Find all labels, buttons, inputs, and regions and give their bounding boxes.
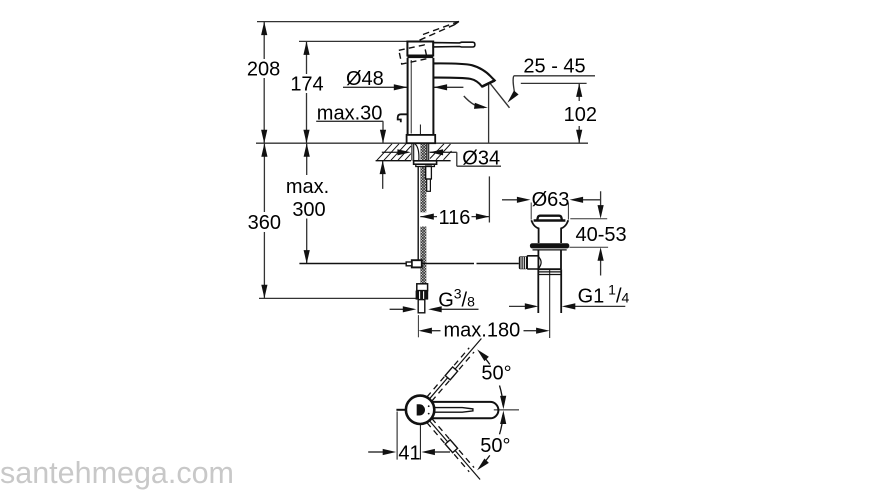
extension line 360 bottom [259, 297, 416, 299]
arrow 102 top [576, 83, 582, 97]
extension line 116 right [488, 176, 490, 222]
svg-text:40-53: 40-53 [576, 224, 627, 246]
arrow Ø48 right [394, 84, 408, 90]
arrow Ø63 right [570, 197, 584, 203]
arrow 40-53 top [598, 205, 604, 219]
svg-text:41: 41 [398, 442, 420, 464]
deck hatching right [430, 144, 452, 160]
svg-text:max.: max. [286, 176, 329, 198]
spout [433, 63, 494, 86]
upper 50° arc (broken at text) [486, 359, 504, 405]
dimension 102 line [578, 83, 580, 143]
arrow 41 right [421, 449, 435, 455]
svg-text:116: 116 [438, 207, 470, 229]
leader curve 25-45 [513, 76, 515, 93]
faucet body [408, 58, 434, 135]
head tilted (dashed) [399, 45, 427, 64]
extension lines 40-53 [569, 219, 608, 247]
dimension 174 line [306, 41, 308, 143]
arrow 102 bottom [576, 130, 582, 144]
arrow max.180 left [418, 328, 432, 334]
shank parts in deck hole [412, 143, 429, 160]
top view cartridge slot (pill) [417, 404, 425, 415]
upper 50° extension diagonal [430, 339, 482, 399]
svg-text:208: 208 [247, 59, 280, 81]
extension lines Ø63 [531, 203, 568, 220]
svg-text:G1 1/4: G1 1/4 [578, 281, 630, 307]
arrow 116 right [476, 214, 490, 220]
dimension Ø63 line [502, 199, 600, 201]
arrow Ø48 left [434, 84, 448, 90]
svg-text:Ø63: Ø63 [532, 189, 570, 211]
horizontal pop-up rod [299, 263, 518, 265]
arrow G1 1/4 right [562, 303, 576, 309]
water stream diagonal [490, 84, 509, 108]
dimension max.300 line [306, 143, 308, 263]
arrow max.180 right [536, 328, 550, 334]
deck level line [256, 142, 588, 144]
lower 50° arc (broken at text) [486, 415, 504, 461]
svg-text:25 - 45: 25 - 45 [523, 55, 585, 77]
tailpipe joint lines [538, 272, 561, 275]
svg-text:360: 360 [248, 212, 281, 234]
svg-text:santehmega.com: santehmega.com [0, 456, 234, 490]
dimension G3/8 line [390, 308, 479, 310]
arrow 40-53 bottom [598, 247, 604, 261]
arrow 174 top [303, 41, 309, 55]
svg-text:102: 102 [564, 104, 597, 126]
arrow max.300 bottom [304, 250, 310, 264]
drain side port inner arc [538, 257, 541, 269]
dimension G1 1/4 line [509, 305, 625, 307]
top view lever bar [431, 408, 473, 413]
dimension 208 line [263, 22, 265, 144]
arrow Ø34 right [430, 149, 444, 155]
braided hose upper [420, 167, 426, 213]
faucet centerline [419, 125, 421, 135]
drain ring underline [533, 249, 567, 251]
dimension 40-53 vertical [600, 191, 602, 275]
lower lever grip outline [445, 440, 457, 453]
dimension Ø48 leader lines [343, 86, 463, 88]
spout outlet face [482, 80, 495, 86]
arrow Ø34 left [397, 149, 411, 155]
arc arrowhead upper-bottom [500, 396, 506, 410]
faucet head dark band [407, 55, 433, 58]
arrow Ø63 left [517, 197, 531, 203]
drain plug cap [537, 216, 562, 220]
centerline right of spout [494, 409, 519, 411]
arrow max.30 up [380, 161, 386, 175]
dimension 360 line [263, 143, 265, 298]
pop-up vertical rod [417, 167, 419, 261]
hose end fitting [417, 284, 428, 291]
arrow aerator swivel [474, 103, 488, 111]
extension line head top [299, 40, 407, 42]
drain tailpipe [538, 269, 561, 313]
faucet head (cartridge housing) [407, 42, 433, 56]
svg-text:Ø34: Ø34 [462, 147, 500, 169]
G3/8 nut [416, 291, 429, 300]
arrow 116 left [420, 214, 434, 220]
top view left tick [396, 409, 406, 411]
svg-text:50°: 50° [481, 363, 511, 385]
drain body [538, 250, 561, 269]
arrow 208 top [261, 22, 267, 35]
dimension 25-45 underline [514, 75, 595, 77]
hose curve in hole [415, 144, 419, 161]
lever handle raised (dashed) [420, 21, 460, 40]
drain centerline [549, 269, 551, 338]
arrow 41 left [383, 449, 397, 455]
arrow 174 bottom [303, 130, 309, 144]
hose tail tube [418, 300, 425, 313]
arc arrowhead upper-top [475, 347, 489, 361]
upper lever grip outline [445, 367, 457, 380]
drain funnel right [561, 220, 568, 243]
hose connector right [426, 166, 432, 179]
svg-text:max.30: max.30 [317, 102, 383, 124]
svg-text:50°: 50° [480, 435, 510, 457]
arc arrowhead lower-top [500, 410, 506, 424]
svg-text:300: 300 [292, 199, 325, 221]
svg-text:max.180: max.180 [444, 319, 521, 341]
deck underside lines [376, 160, 451, 162]
arrow 360 bottom [261, 285, 267, 299]
41 extension lines [397, 412, 420, 460]
dimension max.30 leader [316, 121, 383, 189]
arrow G3/8 left [403, 306, 417, 312]
upper dashed lever [427, 348, 474, 401]
dimension Ø34 leader [382, 152, 501, 166]
mounting nut lip [416, 164, 435, 166]
faucet base plate [407, 135, 436, 143]
svg-text:G3/8: G3/8 [438, 285, 475, 311]
svg-text:174: 174 [290, 73, 323, 95]
drain flange nut (dark ring) [530, 243, 569, 248]
ball joint block [412, 260, 422, 267]
top view body circle [406, 396, 434, 424]
deck hatching left [377, 144, 411, 160]
water stream vertical [488, 84, 490, 143]
arrow leader 25-45 [505, 90, 519, 104]
41 dimension lines [368, 451, 450, 453]
top view spout (stadium) [420, 402, 498, 418]
extension line top (tip of raised lever) [257, 21, 459, 23]
extension line max.180 left [417, 315, 419, 337]
extension line 102 top [521, 82, 587, 84]
lever handle solid [433, 42, 475, 47]
mounting nut [414, 161, 437, 164]
arrow max.300 top [304, 143, 310, 157]
dimension 116 line [420, 216, 489, 218]
aerator swivel arc arrow [464, 96, 484, 108]
drain flange top edge [534, 219, 566, 222]
arrow 360 top [261, 143, 267, 157]
arrow 208 bottom [261, 130, 267, 144]
pop-up rod knob [398, 114, 408, 122]
drain funnel left [531, 220, 538, 243]
dimension max.180 line [432, 330, 537, 332]
knurled knob [519, 256, 527, 269]
braided hose lower [420, 227, 426, 284]
svg-text:Ø48: Ø48 [346, 68, 384, 90]
braided hose in hole [421, 143, 427, 160]
lower dashed lever [427, 418, 474, 471]
top view dash dots on circle [428, 405, 430, 407]
ball joint stub [406, 262, 412, 266]
faucet body inner highlight line [410, 60, 412, 134]
arrow G3/8 right [428, 306, 442, 312]
arrow max.30 down [380, 130, 386, 144]
drain side port [527, 256, 538, 269]
arc arrowhead lower-bottom [475, 458, 489, 472]
lower 50° extension diagonal [430, 421, 481, 480]
arrow G1 1/4 left [525, 303, 539, 309]
